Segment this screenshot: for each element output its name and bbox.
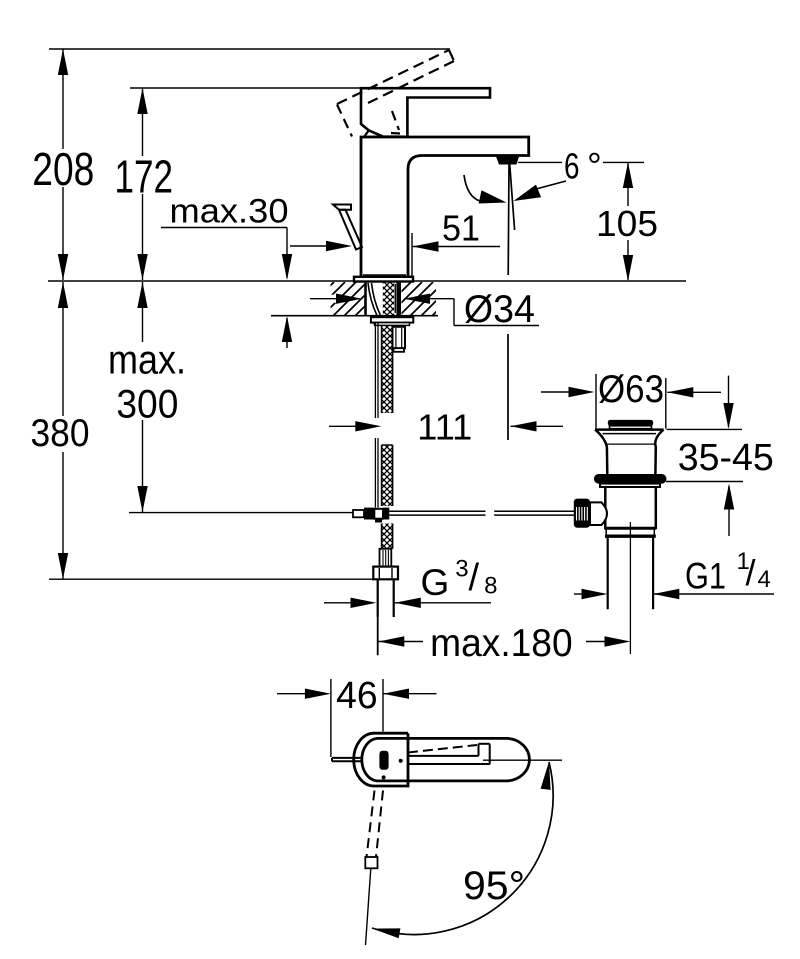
- label max.180: [430, 622, 573, 665]
- svg-text:/: /: [469, 557, 480, 599]
- G3/8 tube: [378, 579, 394, 617]
- 35-45 upper arrow: [723, 376, 733, 429]
- dimension 208 line: [62, 49, 64, 280]
- linkage clamp: [353, 508, 389, 523]
- dimension 208 arrows: [58, 49, 68, 280]
- label 51: [442, 207, 480, 248]
- water stream vertical line: [508, 164, 509, 440]
- dimension 380 line: [62, 282, 64, 579]
- shank slot line: [394, 284, 396, 313]
- dimension max.180 left arrow: [378, 636, 423, 646]
- svg-text:172: 172: [115, 151, 174, 203]
- 6 deg arc: [464, 175, 507, 204]
- handle 95deg axis line: [366, 868, 371, 945]
- dimension max.300 line: [142, 282, 144, 512]
- label 172: [115, 151, 174, 203]
- label G3/8: [421, 555, 498, 603]
- 35-45 lower arrow: [724, 484, 734, 537]
- svg-text:300: 300: [116, 383, 178, 427]
- dimension Ø63 right arrow: [667, 387, 721, 397]
- linkage rod double: [389, 511, 574, 515]
- dimension 105 arrows: [623, 162, 633, 281]
- pop-up rod vertical: [375, 323, 378, 508]
- svg-text:/: /: [746, 552, 756, 593]
- outlet level ref line: [518, 161, 644, 163]
- svg-text:Ø63: Ø63: [598, 368, 664, 411]
- top view cartridge mark: [379, 751, 388, 770]
- dimension 172 line: [142, 88, 144, 280]
- G3/8 dim right arrow: [395, 598, 491, 608]
- pop-up centre line: [629, 522, 631, 654]
- dimension 380 arrows: [58, 282, 68, 579]
- countertop cross-section hatching (right of hole): [300, 282, 499, 316]
- svg-text:51: 51: [442, 207, 480, 248]
- top view pull rod tab: [332, 758, 361, 761]
- countertop cross-section hatching (left of hole): [300, 282, 499, 316]
- label 95 deg: [463, 864, 525, 908]
- base plate escutcheon: [354, 277, 413, 282]
- linkage rod thin: [129, 512, 353, 514]
- braided hose (upper): [382, 316, 393, 413]
- handle 95deg end block: [365, 857, 377, 868]
- faucet centre line below: [377, 617, 379, 655]
- dim ref line handle top (172 level): [130, 87, 365, 89]
- svg-text:3: 3: [455, 555, 468, 582]
- svg-text:111: 111: [417, 406, 472, 447]
- svg-text:35-45: 35-45: [678, 437, 774, 479]
- svg-text:°: °: [587, 145, 602, 186]
- pop-up knurled knob: [574, 499, 590, 528]
- dimension Ø34 left arrow: [310, 294, 362, 304]
- faucet body bottom line: [363, 274, 406, 276]
- dimension 51 left arrow: [290, 241, 352, 251]
- knob connector: [590, 502, 607, 525]
- label 111: [417, 406, 472, 447]
- shank right wall: [396, 282, 401, 315]
- label 380: [31, 412, 90, 455]
- G1-1/4 dim right arrow: [653, 589, 774, 599]
- 95 deg arc: [372, 762, 553, 939]
- dimension 172 arrows: [137, 88, 147, 280]
- label 35-45: [678, 437, 774, 479]
- svg-text:G1: G1: [685, 556, 726, 597]
- 46 ext lines: [331, 679, 383, 757]
- max.30 deck-bottom arrow: [282, 316, 292, 348]
- handle lever solid: [361, 88, 490, 137]
- 35-45 top ref line: [667, 428, 743, 430]
- shank left wall: [364, 282, 367, 315]
- washer flange below deck: [371, 317, 413, 325]
- dimension 46 right arrow: [383, 689, 437, 699]
- water stream 6 deg line: [510, 164, 515, 230]
- faucet body outline: [361, 137, 529, 281]
- max.30 leader arrow: [282, 254, 292, 280]
- hose end reference line: [49, 578, 374, 580]
- label max.30: [170, 192, 289, 230]
- braided hose (lower): [382, 524, 393, 549]
- top view lever stem: [408, 744, 490, 765]
- 6 deg leader line: [514, 181, 567, 201]
- pop-up coupling ring: [605, 528, 657, 538]
- top view body outline: [354, 733, 408, 786]
- max.30 underline and leader: [161, 228, 287, 279]
- countertop bottom surface line: [271, 315, 438, 317]
- G3/8 dim left arrow: [324, 598, 377, 608]
- top view handle stadium: [362, 738, 530, 781]
- label 208: [32, 143, 94, 195]
- threaded stud and nut: [393, 327, 406, 352]
- svg-text:95°: 95°: [463, 864, 525, 908]
- dimension 111 right arrow: [511, 421, 564, 431]
- svg-text:6: 6: [564, 145, 580, 186]
- label 105: [596, 203, 659, 244]
- svg-text:46: 46: [336, 675, 378, 717]
- svg-text:Ø34: Ø34: [464, 288, 535, 331]
- pop-up body: [605, 487, 656, 529]
- svg-text:max.180: max.180: [430, 622, 573, 665]
- dimension Ø63 left arrow: [541, 387, 595, 397]
- label G1-1/4: [685, 548, 771, 597]
- Ø63 ext lines: [596, 374, 666, 429]
- braided hose (middle): [382, 445, 393, 506]
- dim ref line top (208 level): [49, 48, 450, 50]
- dimension max.300 arrows: [137, 282, 147, 512]
- top view dots: [382, 759, 403, 780]
- svg-text:4: 4: [758, 566, 771, 593]
- svg-text:380: 380: [31, 412, 90, 455]
- svg-text:max.30: max.30: [170, 192, 289, 230]
- countertop top surface line: [48, 280, 686, 282]
- pop-up tailpipe: [608, 537, 653, 609]
- dimension 105 line: [627, 163, 629, 280]
- dimension max.180 right arrow: [586, 636, 631, 646]
- dimension 111 left arrow: [329, 421, 381, 431]
- braid in shank: [383, 283, 394, 316]
- 35-45 bottom ref line: [666, 481, 743, 483]
- pop-up pull rod knob: [333, 205, 362, 250]
- svg-text:105: 105: [596, 203, 658, 244]
- top view lever dashed: [408, 745, 477, 753]
- G3/8 nut: [373, 567, 398, 580]
- pop-up funnel: [595, 430, 664, 475]
- svg-text:208: 208: [32, 143, 94, 195]
- dimension 51 ext line: [411, 233, 413, 276]
- label max.300: [108, 337, 186, 427]
- handle 95deg dashed: [367, 791, 384, 858]
- label 46: [336, 675, 378, 717]
- dimension Ø34 right arrow: [404, 294, 454, 304]
- handle lever dashed (raised position): [337, 50, 454, 137]
- label Ø63: [597, 368, 665, 411]
- pop-up flange: [600, 484, 660, 487]
- svg-text:8: 8: [484, 573, 497, 600]
- pop-up plug cap: [608, 420, 653, 429]
- svg-text:G: G: [421, 562, 450, 603]
- pop-up gasket ring: [594, 474, 666, 484]
- hose curve in shank: [368, 283, 380, 315]
- aerator mousseur: [496, 157, 519, 165]
- top view centre line: [483, 759, 562, 761]
- dimension 51 right arrow: [413, 241, 501, 251]
- G1-1/4 dim left arrow: [574, 589, 608, 599]
- hose end fitting: [380, 549, 392, 567]
- label Ø34: [464, 288, 535, 331]
- dimension 46 left arrow: [277, 689, 331, 699]
- label 6 deg: [564, 145, 602, 186]
- svg-text:max.: max.: [108, 337, 186, 383]
- Ø34 leader: [454, 299, 539, 326]
